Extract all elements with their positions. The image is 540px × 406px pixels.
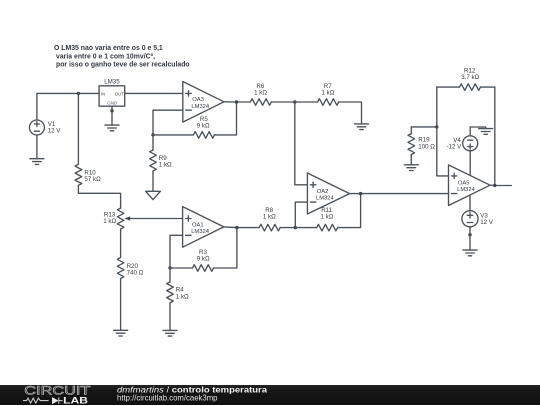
svg-text:740 Ω: 740 Ω <box>127 269 144 276</box>
resistor R3 <box>170 228 237 272</box>
svg-text:OA5: OA5 <box>458 181 470 187</box>
svg-text:IN: IN <box>101 91 106 96</box>
svg-text:OA2: OA2 <box>317 189 329 195</box>
svg-text:LM324: LM324 <box>191 104 210 110</box>
wire OA1 output <box>224 226 259 229</box>
node LM35 gnd dot <box>110 109 113 112</box>
op-amp OA2 <box>307 173 349 214</box>
LM35 U1 <box>99 78 125 106</box>
svg-text:1 kΩ: 1 kΩ <box>322 90 335 97</box>
wire V1 top to rail <box>37 93 99 120</box>
resistor R7 <box>295 83 362 124</box>
resistor R4 <box>167 268 189 330</box>
svg-text:9 kΩ: 9 kΩ <box>197 123 210 130</box>
ground under R19 <box>404 165 418 171</box>
node OA5 out junction <box>493 184 496 187</box>
svg-text:OUT: OUT <box>115 91 125 96</box>
wire LM35 OUT to OA3 + <box>125 92 183 94</box>
wire OA5 output <box>490 184 511 186</box>
svg-text:LM324: LM324 <box>191 229 210 235</box>
logo resistor zigzag <box>23 397 63 403</box>
resistor R20 <box>117 258 143 331</box>
svg-text:57 kΩ: 57 kΩ <box>84 176 101 183</box>
ground under V3 <box>463 250 477 256</box>
node junction rail-R10 <box>77 92 80 95</box>
op-amp OA5 <box>449 165 491 206</box>
svg-text:3.7 kΩ: 3.7 kΩ <box>461 74 479 81</box>
wire OA2 output to OA5 - <box>350 193 449 195</box>
ground after R7 <box>355 124 369 130</box>
node OA1 out junction <box>235 226 238 229</box>
resistor R19 <box>408 127 435 165</box>
wire V3 top to OA5 bottom <box>469 195 471 211</box>
wire V4 bottom to OA5 top <box>469 151 471 176</box>
logo diode bar <box>58 397 60 403</box>
svg-text:GND: GND <box>107 100 118 105</box>
node OA2 out junction <box>359 192 362 195</box>
ground at V4 <box>479 129 493 135</box>
voltage source V3 <box>462 211 494 227</box>
resistor R5 <box>153 102 237 138</box>
wire V4 top to ground <box>470 127 486 136</box>
svg-text:1 kΩ: 1 kΩ <box>103 218 116 225</box>
node R6/R7 junction <box>293 100 296 103</box>
resistor R9 <box>150 135 172 191</box>
resistor R10 <box>75 93 121 208</box>
svg-text:varia entre 0 e 1 com 10mv/Cº,: varia entre 0 e 1 com 10mv/Cº, <box>56 53 155 60</box>
resistor R11 <box>295 194 360 231</box>
svg-text:LM324: LM324 <box>457 187 476 193</box>
footer bar <box>0 385 540 406</box>
svg-text:OA1: OA1 <box>192 222 204 228</box>
svg-text:12 V: 12 V <box>48 127 62 134</box>
svg-text:-12 V: -12 V <box>447 144 463 151</box>
op-amp OA3 <box>183 82 224 123</box>
svg-text:OA3: OA3 <box>192 97 204 103</box>
voltage source V4 <box>447 136 478 151</box>
potentiometer R13 <box>103 208 182 229</box>
node OA3 out junction <box>235 100 238 103</box>
svg-text:http://circuitlab.com/caek3mp: http://circuitlab.com/caek3mp <box>117 392 218 402</box>
svg-text:1 kΩ: 1 kΩ <box>159 161 172 168</box>
logo diode triangle <box>52 397 59 404</box>
resistor R12 <box>437 68 495 186</box>
ground under LM35 <box>105 125 119 131</box>
resistor R8 <box>259 207 295 231</box>
note text annotation <box>54 45 190 69</box>
wire to OA2 inverting input <box>295 202 307 228</box>
wire LM35 GND <box>111 106 113 125</box>
svg-text:1 kΩ: 1 kΩ <box>321 214 334 221</box>
wire OA3 output <box>224 101 250 103</box>
wire R13 to R20 <box>120 229 122 257</box>
svg-text:LM324: LM324 <box>316 196 335 202</box>
wire V3 bottom <box>469 227 471 250</box>
wire node to OA5 + <box>437 127 449 176</box>
node R5/R9 junction <box>151 133 154 136</box>
svg-text:O LM35 nao varia entre os 0 e: O LM35 nao varia entre os 0 e 5,1 <box>54 45 163 52</box>
svg-text:LAB: LAB <box>63 395 88 406</box>
wire OA1 inverting input <box>170 235 183 268</box>
ground under V1 <box>30 159 44 165</box>
wire R6R7 node down to OA2 + <box>295 102 308 185</box>
op-amp OA1 <box>183 207 224 248</box>
svg-text:por isso o ganho teve de ser r: por isso o ganho teve de ser recalculado <box>56 62 190 69</box>
svg-text:12 V: 12 V <box>480 219 494 226</box>
node R12/R19/OA5+ junction <box>435 125 438 128</box>
resistor R6 <box>250 83 294 105</box>
ground under R20 <box>114 330 128 336</box>
signal ground under R9 <box>146 191 161 199</box>
node R8/R11 junction <box>294 226 297 229</box>
ground under R4 <box>163 330 177 336</box>
svg-text:1 kΩ: 1 kΩ <box>254 90 267 97</box>
svg-text:9 kΩ: 9 kΩ <box>197 256 210 263</box>
wire V1 bottom <box>36 135 38 159</box>
voltage source V1 <box>29 120 61 135</box>
svg-text:100 Ω: 100 Ω <box>418 143 435 150</box>
svg-text:LM35: LM35 <box>104 78 120 85</box>
wire OA3 inverting input <box>153 110 183 135</box>
node below V3 <box>468 233 471 236</box>
wire R19 to R12 node <box>411 87 437 127</box>
svg-text:1 kΩ: 1 kΩ <box>263 214 276 221</box>
svg-text:1 kΩ: 1 kΩ <box>176 293 189 300</box>
node R3/R4 junction <box>168 266 171 269</box>
